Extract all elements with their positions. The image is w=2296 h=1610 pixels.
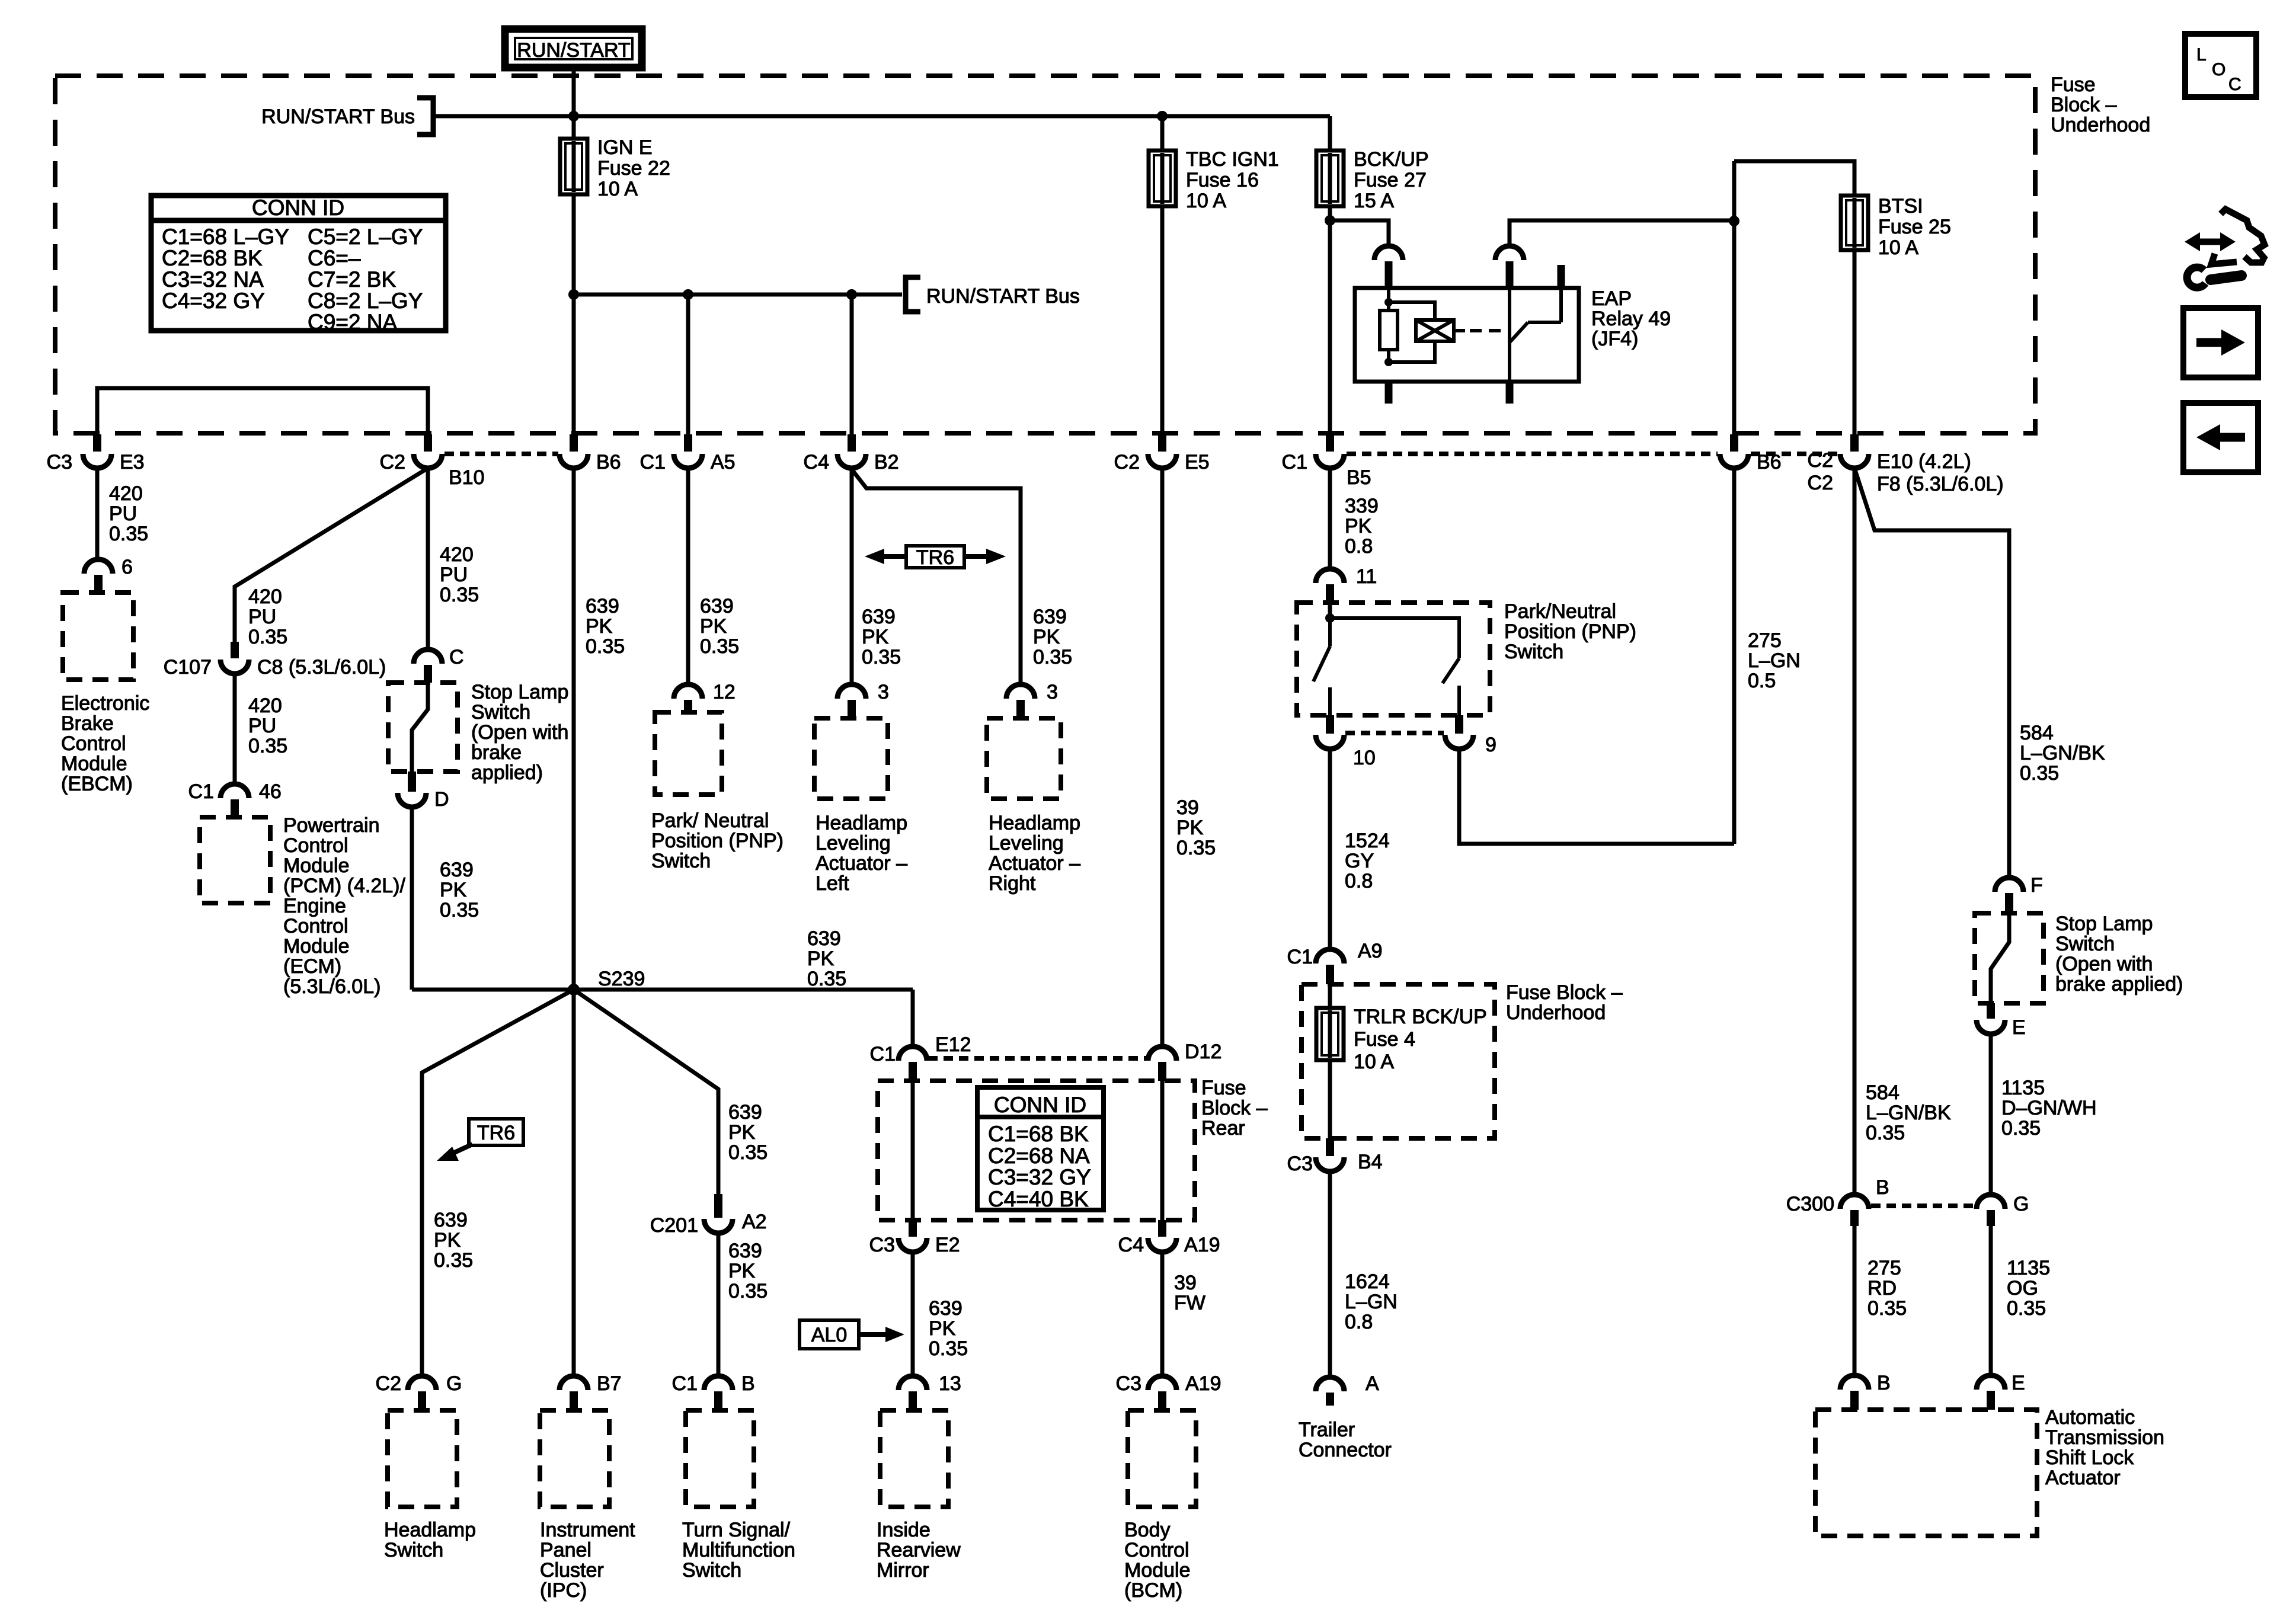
EAP Relay 49 (JF4) label xyxy=(1591,287,1671,350)
275 RD 0.35 label xyxy=(1868,1257,1907,1320)
PCM label xyxy=(283,814,405,998)
connector 3 (actuator left) xyxy=(837,684,866,718)
svg-text:C8=2 L–GY: C8=2 L–GY xyxy=(308,289,423,313)
PNP switch label (left) xyxy=(651,809,784,872)
svg-text:Park/ Neutral: Park/ Neutral xyxy=(651,809,769,832)
wire: pin 10 down to C1/A9 xyxy=(1328,749,1332,950)
svg-text:PK: PK xyxy=(586,615,613,638)
dotted connector link C300 B to G xyxy=(1871,1204,1974,1208)
svg-text:639: 639 xyxy=(862,606,896,628)
shift lock actuator label xyxy=(2045,1406,2164,1489)
C3/E3 labels xyxy=(47,451,145,473)
wire: TRLR fuse down to C3/B4 xyxy=(1328,1060,1332,1138)
svg-text:C2=68 NA: C2=68 NA xyxy=(988,1144,1090,1168)
svg-text:AL0: AL0 xyxy=(811,1324,848,1346)
BCK/UP fuse label xyxy=(1354,148,1429,212)
svg-text:E: E xyxy=(2012,1372,2025,1394)
headlamp switch box xyxy=(388,1410,457,1507)
svg-text:RUN/START Bus: RUN/START Bus xyxy=(261,105,415,128)
svg-text:B: B xyxy=(1877,1372,1891,1394)
dotted connector link C2/B10 to B6 xyxy=(445,452,558,456)
border row connector C2/E10-F8 xyxy=(1840,434,1869,468)
connector 6 (EBCM) xyxy=(84,559,113,593)
svg-text:C3=32 NA: C3=32 NA xyxy=(162,267,264,292)
svg-text:E5: E5 xyxy=(1185,451,1210,473)
connector 11 (PNP right) xyxy=(1316,569,1344,603)
wire: B6 column down to S239 and IPC xyxy=(572,468,576,1378)
svg-text:Stop Lamp: Stop Lamp xyxy=(2055,913,2153,935)
639 PK 0.35 label (C201 above) xyxy=(728,1101,768,1164)
639 PK 0.35 label (E2) xyxy=(929,1297,968,1360)
svg-text:B4: B4 xyxy=(1358,1151,1383,1173)
svg-text:C300: C300 xyxy=(1786,1193,1834,1215)
svg-text:Switch: Switch xyxy=(471,701,530,724)
PNP internal wires and arms xyxy=(1313,618,1459,715)
svg-text:L–GN: L–GN xyxy=(1748,649,1801,672)
svg-text:Control: Control xyxy=(283,915,348,937)
dotted connector link E12 to D12 xyxy=(928,1056,1147,1061)
584 L-GN/BK 0.35 label (F above) xyxy=(2020,722,2105,785)
wire: bus2 down to B2 connector xyxy=(850,295,854,437)
connector E (stop lamp right) xyxy=(1977,1003,2005,1034)
wire: BTSI fuse down to C2 connector xyxy=(1853,250,1857,437)
C1 / E12 labels xyxy=(870,1033,971,1065)
svg-text:Control: Control xyxy=(1124,1539,1189,1561)
svg-text:Headlamp: Headlamp xyxy=(816,812,907,834)
svg-text:Park/Neutral: Park/Neutral xyxy=(1504,600,1616,623)
connector C (stop lamp switch) xyxy=(414,649,442,683)
turn signal label xyxy=(682,1519,795,1582)
svg-text:3: 3 xyxy=(1047,681,1058,703)
fuse IGN E Fuse 22 xyxy=(560,139,587,194)
wire: B2 branch to actuator right xyxy=(852,469,1021,686)
TBC IGN1 fuse label xyxy=(1186,148,1279,212)
svg-text:Switch: Switch xyxy=(2055,933,2115,955)
svg-text:Shift Lock: Shift Lock xyxy=(2045,1446,2134,1469)
svg-text:Fuse: Fuse xyxy=(1201,1077,1246,1099)
svg-text:Fuse 25: Fuse 25 xyxy=(1878,216,1951,238)
svg-text:C2: C2 xyxy=(1114,451,1140,473)
svg-text:EAP: EAP xyxy=(1591,287,1632,310)
connector C300 G xyxy=(1977,1195,2005,1226)
svg-text:F: F xyxy=(2030,874,2043,897)
relay top stub (87 pin) xyxy=(1558,265,1565,288)
C201 / A2 labels xyxy=(650,1211,767,1237)
C4 / A19 labels xyxy=(1118,1234,1220,1256)
svg-text:TR6: TR6 xyxy=(916,546,954,569)
mirror label xyxy=(877,1519,961,1582)
trailer connector A xyxy=(1316,1377,1344,1406)
svg-text:PK: PK xyxy=(929,1317,956,1340)
svg-text:0.35: 0.35 xyxy=(2007,1297,2046,1320)
svg-text:0.35: 0.35 xyxy=(1033,646,1072,668)
wire: A5 down to PNP pin 12 xyxy=(686,468,690,686)
svg-text:PU: PU xyxy=(109,502,137,525)
svg-text:0.35: 0.35 xyxy=(807,968,846,990)
svg-text:brake applied): brake applied) xyxy=(2055,973,2183,996)
svg-text:TR6: TR6 xyxy=(477,1122,515,1144)
RUN/START Bus bracket (middle) xyxy=(906,277,920,312)
headlamp actuator right label xyxy=(989,812,1080,895)
svg-text:PU: PU xyxy=(248,606,276,628)
junction dot relay branch xyxy=(1325,215,1335,226)
wire: B6 right column down xyxy=(1732,468,1737,844)
wire: IGN E fuse to bus2 xyxy=(572,194,576,295)
svg-text:C2: C2 xyxy=(1808,472,1833,494)
right arrow xyxy=(2196,329,2245,356)
svg-text:1135: 1135 xyxy=(2001,1077,2045,1099)
svg-text:0.35: 0.35 xyxy=(586,635,625,658)
stop lamp switch lever (right) xyxy=(1991,913,2009,1003)
639 PK 0.35 label (actuator left) xyxy=(862,606,901,668)
svg-text:Trailer: Trailer xyxy=(1299,1419,1355,1441)
TR6 range box xyxy=(906,546,964,568)
svg-text:PK: PK xyxy=(728,1121,756,1144)
connector C1/A9 xyxy=(1316,949,1344,984)
border row connector C4/B2 xyxy=(837,434,866,468)
svg-text:Headlamp: Headlamp xyxy=(384,1519,476,1541)
AL0 arrow xyxy=(859,1327,904,1342)
svg-text:C4: C4 xyxy=(804,451,829,473)
svg-text:C3=32 GY: C3=32 GY xyxy=(988,1165,1091,1189)
svg-text:L: L xyxy=(2196,45,2207,65)
svg-text:S239: S239 xyxy=(598,968,645,990)
svg-text:Brake: Brake xyxy=(61,712,114,735)
svg-text:B5: B5 xyxy=(1347,466,1371,489)
svg-text:C1=68 L–GY: C1=68 L–GY xyxy=(162,225,289,249)
svg-text:C4: C4 xyxy=(1118,1234,1144,1256)
639 PK 0.35 label (C201 below) xyxy=(728,1240,768,1302)
svg-text:B7: B7 xyxy=(597,1372,622,1395)
svg-text:C107: C107 xyxy=(164,656,212,678)
svg-text:Fuse Block –: Fuse Block – xyxy=(1506,981,1623,1004)
connector C300 B xyxy=(1840,1195,1869,1226)
420 PU 0.35 label (E3) xyxy=(109,482,148,545)
EBCM box xyxy=(63,593,133,680)
svg-text:PK: PK xyxy=(862,626,889,648)
svg-text:Body: Body xyxy=(1124,1519,1171,1541)
wire: link E3 to B10 inside fuse block xyxy=(97,388,428,434)
svg-text:L–GN/BK: L–GN/BK xyxy=(2020,742,2105,764)
svg-text:C3: C3 xyxy=(47,451,72,473)
CONN ID table underhood xyxy=(151,196,446,331)
PNP switch label (right) xyxy=(1504,600,1636,663)
fuse block rear dashed box xyxy=(878,1081,1195,1220)
C3 / E2 labels xyxy=(869,1234,960,1256)
border row connector C3/E3 xyxy=(83,434,111,468)
svg-text:(BCM): (BCM) xyxy=(1124,1579,1182,1602)
inside rearview mirror box xyxy=(880,1410,948,1507)
svg-text:639: 639 xyxy=(728,1101,762,1124)
svg-text:Actuator –: Actuator – xyxy=(989,852,1080,875)
svg-text:C9=2 NA: C9=2 NA xyxy=(308,310,397,334)
39 FW label xyxy=(1174,1272,1205,1314)
stop lamp switch lever (left) xyxy=(412,683,428,772)
junction dot bus2/A5 xyxy=(683,289,693,300)
IGN E fuse label xyxy=(597,136,670,200)
svg-text:Position (PNP): Position (PNP) xyxy=(651,830,784,852)
639 PK 0.35 label (headlamp switch) xyxy=(434,1209,473,1272)
svg-text:(IPC): (IPC) xyxy=(540,1579,587,1602)
relay EAP Relay 49 box xyxy=(1355,288,1579,382)
C4/B2 labels xyxy=(804,451,899,473)
svg-text:FW: FW xyxy=(1174,1292,1205,1314)
fuse block underhood second label xyxy=(1506,981,1623,1024)
IPC label xyxy=(540,1519,635,1602)
wire: S239 diagonal to headlamp switch column xyxy=(422,990,574,1378)
svg-text:Electronic: Electronic xyxy=(61,692,149,715)
svg-text:1524: 1524 xyxy=(1345,830,1390,852)
service icon head outline xyxy=(2221,209,2265,263)
svg-text:E: E xyxy=(2012,1016,2026,1039)
C1/A5 labels xyxy=(640,451,736,473)
svg-text:B10: B10 xyxy=(449,466,485,489)
svg-text:C1: C1 xyxy=(1282,451,1307,473)
svg-text:Rear: Rear xyxy=(1201,1117,1245,1140)
svg-text:0.35: 0.35 xyxy=(440,899,479,921)
svg-text:PK: PK xyxy=(807,948,834,970)
svg-text:PK: PK xyxy=(728,1260,756,1282)
svg-text:0.35: 0.35 xyxy=(109,523,148,545)
dotted connector link B5 to B6 right xyxy=(1347,452,1718,456)
svg-text:D12: D12 xyxy=(1185,1041,1221,1063)
svg-text:339: 339 xyxy=(1345,495,1379,517)
svg-text:F8 (5.3L/6.0L): F8 (5.3L/6.0L) xyxy=(1877,473,2004,495)
639 PK 0.35 label (actuator right) xyxy=(1033,606,1072,668)
CONN ID table rear xyxy=(977,1087,1104,1210)
svg-text:BCK/UP: BCK/UP xyxy=(1354,148,1429,171)
wire: relay switch output branch xyxy=(1510,220,1734,247)
connector C1/B (turn signal switch) xyxy=(704,1376,733,1410)
connector 12 (PNP switch) xyxy=(674,684,702,712)
420 PU 0.35 label (B10 down) xyxy=(440,543,479,606)
svg-text:C3: C3 xyxy=(1287,1153,1313,1175)
wire: stub from RUN/START box xyxy=(572,68,576,116)
border row connector C1/A5 xyxy=(674,434,702,468)
svg-text:RUN/START Bus: RUN/START Bus xyxy=(926,285,1080,308)
wire: IGN E column upper xyxy=(572,116,576,139)
svg-text:Relay 49: Relay 49 xyxy=(1591,308,1671,330)
connector C201/A2 xyxy=(704,1194,733,1233)
svg-text:420: 420 xyxy=(109,482,143,505)
svg-text:E2: E2 xyxy=(935,1234,960,1256)
svg-text:Rearview: Rearview xyxy=(877,1539,961,1561)
639 PK 0.35 label (E12 segment) xyxy=(807,927,846,990)
svg-text:Left: Left xyxy=(816,872,849,895)
body control module box xyxy=(1128,1410,1196,1507)
C1 / B labels xyxy=(672,1372,755,1395)
svg-text:A: A xyxy=(1366,1372,1379,1395)
svg-text:C8 (5.3L/6.0L): C8 (5.3L/6.0L) xyxy=(257,656,386,678)
1135 OG 0.35 label xyxy=(2007,1257,2050,1320)
junction dot coil top xyxy=(1384,298,1393,306)
connector D (stop lamp switch) xyxy=(398,772,426,807)
svg-text:Turn Signal/: Turn Signal/ xyxy=(682,1519,791,1541)
svg-text:A19: A19 xyxy=(1184,1234,1220,1256)
wire: TBC column to connector E5 xyxy=(1160,206,1165,437)
BCM label xyxy=(1124,1519,1191,1602)
svg-text:C1: C1 xyxy=(1287,946,1313,968)
relay pin stub (coil) xyxy=(1385,261,1393,288)
svg-text:Fuse 22: Fuse 22 xyxy=(597,157,670,180)
svg-text:39: 39 xyxy=(1174,1272,1197,1294)
svg-text:(ECM): (ECM) xyxy=(283,955,341,978)
svg-text:9: 9 xyxy=(1485,734,1496,756)
svg-text:420: 420 xyxy=(248,694,282,717)
C107 / C8 labels xyxy=(164,656,386,678)
svg-text:C2: C2 xyxy=(1808,449,1833,472)
border row connector B6 right xyxy=(1720,434,1748,468)
svg-text:C1: C1 xyxy=(640,451,666,473)
headlamp switch label xyxy=(384,1519,476,1561)
C1/B5 labels xyxy=(1282,451,1371,489)
AL0 reference box xyxy=(800,1320,859,1349)
svg-text:15 A: 15 A xyxy=(1354,190,1394,212)
svg-text:B: B xyxy=(1876,1176,1889,1199)
wire: D down to S239 row xyxy=(410,807,414,990)
39 PK 0.35 label (E5) xyxy=(1176,796,1216,859)
svg-text:C: C xyxy=(2228,75,2241,94)
relay pin cap (coil) xyxy=(1374,246,1403,260)
C1 / 46 labels xyxy=(188,780,282,803)
svg-text:Switch: Switch xyxy=(384,1539,443,1561)
svg-text:46: 46 xyxy=(259,780,282,803)
639 PK 0.35 label (A5) xyxy=(700,595,739,658)
svg-text:C4=32 GY: C4=32 GY xyxy=(162,289,265,313)
relay switch arm xyxy=(1510,288,1561,382)
connector E (shift lock) xyxy=(1977,1375,2005,1410)
relay actuation dashed link xyxy=(1470,329,1502,332)
svg-text:Leveling: Leveling xyxy=(816,832,891,854)
RUN/START Bus bracket (top) xyxy=(417,98,433,135)
svg-text:E3: E3 xyxy=(120,451,145,473)
border row connector C2/B10 xyxy=(414,434,442,468)
fuse block underhood second dashed box xyxy=(1302,984,1495,1138)
svg-text:0.35: 0.35 xyxy=(1868,1297,1907,1320)
fuse block underhood dashed box xyxy=(55,76,2035,433)
C2 / G labels xyxy=(376,1372,462,1395)
svg-text:639: 639 xyxy=(929,1297,962,1320)
fuse block underhood label xyxy=(2051,73,2150,136)
svg-text:PK: PK xyxy=(1345,515,1372,537)
connector B7 (IPC) xyxy=(559,1376,588,1410)
svg-text:Control: Control xyxy=(283,834,348,857)
PNP pin 10 connector xyxy=(1316,715,1344,749)
svg-text:Underhood: Underhood xyxy=(2051,114,2150,136)
svg-text:10: 10 xyxy=(1353,747,1376,769)
svg-text:Multifunction: Multifunction xyxy=(682,1539,795,1561)
connector 3 (actuator right) xyxy=(1006,684,1035,718)
svg-text:CONN ID: CONN ID xyxy=(994,1093,1086,1117)
relay coil wire top xyxy=(1387,288,1390,302)
svg-text:3: 3 xyxy=(878,681,889,703)
svg-text:0.35: 0.35 xyxy=(2020,762,2059,785)
svg-text:CONN ID: CONN ID xyxy=(252,196,344,220)
wire: C2/E10 straight down to C300 B xyxy=(1853,468,1857,1196)
svg-text:C1: C1 xyxy=(188,780,214,803)
junction dot bus1/TBC xyxy=(1157,111,1168,121)
left arrow xyxy=(2196,424,2245,450)
wire: B4 down to trailer connector xyxy=(1328,1172,1332,1378)
junction dot bus2/B2 xyxy=(846,289,857,300)
stop lamp switch box (right) xyxy=(1975,913,2044,1003)
border row connector B6 xyxy=(559,434,588,468)
junction dot bus2/B6 xyxy=(568,289,579,300)
wire: B10 diagonal to C107 xyxy=(235,468,428,642)
svg-text:Position (PNP): Position (PNP) xyxy=(1504,620,1636,643)
svg-text:PK: PK xyxy=(434,1229,461,1251)
svg-text:Stop Lamp: Stop Lamp xyxy=(471,681,568,703)
stop lamp switch label (left) xyxy=(471,681,568,784)
svg-text:13: 13 xyxy=(939,1372,961,1395)
connector F (stop lamp right) xyxy=(1995,878,2023,913)
svg-text:C7=2 BK: C7=2 BK xyxy=(308,267,396,292)
junction dot relay/B6right xyxy=(1729,216,1739,226)
wire: RUN/START bus 2 horizontal xyxy=(574,293,902,297)
wire: bus1 corner down to BCK/UP fuse xyxy=(1328,116,1332,151)
C300 / B labels xyxy=(1786,1176,1889,1215)
fuse TRLR BCK/UP Fuse 4 xyxy=(1316,1008,1344,1060)
svg-text:RD: RD xyxy=(1868,1277,1897,1299)
wire: BTSI feed horizontal xyxy=(1734,161,1854,196)
svg-text:0.35: 0.35 xyxy=(929,1337,968,1360)
connector C3/B4 xyxy=(1316,1138,1344,1172)
wire: S239 horizontal to E12 corner xyxy=(412,988,913,992)
svg-text:IGN E: IGN E xyxy=(597,136,653,159)
svg-text:639: 639 xyxy=(807,927,841,950)
PCM box xyxy=(200,817,270,903)
wire: D12 through rear block xyxy=(1160,1081,1165,1220)
svg-text:Mirror: Mirror xyxy=(877,1559,929,1582)
svg-text:10 A: 10 A xyxy=(1354,1051,1394,1073)
wire: B6 right column above border xyxy=(1732,161,1737,437)
wire: relay coil feed branch xyxy=(1330,220,1389,247)
junction dot bus1/IGN E xyxy=(568,111,579,121)
svg-text:C4=40 BK: C4=40 BK xyxy=(988,1187,1089,1211)
svg-text:C2=68 BK: C2=68 BK xyxy=(162,246,263,270)
svg-text:Fuse 4: Fuse 4 xyxy=(1354,1028,1415,1051)
svg-text:C3: C3 xyxy=(869,1234,895,1256)
svg-text:10 A: 10 A xyxy=(1878,236,1918,259)
headlamp leveling actuator left box xyxy=(814,718,888,799)
svg-text:Module: Module xyxy=(61,753,127,775)
relay solenoid X-box branch xyxy=(1389,302,1465,362)
service icon jaw bar xyxy=(2211,254,2237,264)
svg-text:OG: OG xyxy=(2007,1277,2038,1299)
svg-text:639: 639 xyxy=(440,859,474,881)
connector C3/A19 (BCM) xyxy=(1148,1376,1176,1410)
639 PK 0.35 label (D below) xyxy=(440,859,479,921)
PNP switch box (left) xyxy=(655,712,722,795)
svg-text:(Open with: (Open with xyxy=(2055,953,2153,975)
svg-text:0.8: 0.8 xyxy=(1345,1311,1373,1333)
svg-text:Block –: Block – xyxy=(2051,94,2117,116)
svg-text:O: O xyxy=(2212,60,2225,79)
svg-text:C1: C1 xyxy=(672,1372,698,1395)
svg-text:639: 639 xyxy=(728,1240,762,1262)
svg-text:Connector: Connector xyxy=(1299,1439,1392,1461)
wire: bus2 down to A5 connector xyxy=(686,295,690,437)
junction dot PNP xyxy=(1325,613,1335,623)
1624 L-GN 0.8 label xyxy=(1345,1270,1398,1333)
svg-text:E12: E12 xyxy=(935,1033,971,1056)
wire: C107 down to PCM pin 46 xyxy=(233,674,237,785)
svg-text:0.35: 0.35 xyxy=(248,735,287,757)
svg-text:(JF4): (JF4) xyxy=(1591,328,1638,350)
svg-text:Fuse: Fuse xyxy=(2051,73,2096,96)
wire: BCK/UP fuse down to connector B5 xyxy=(1328,206,1332,437)
relay pin stub (switch) xyxy=(1506,261,1514,288)
